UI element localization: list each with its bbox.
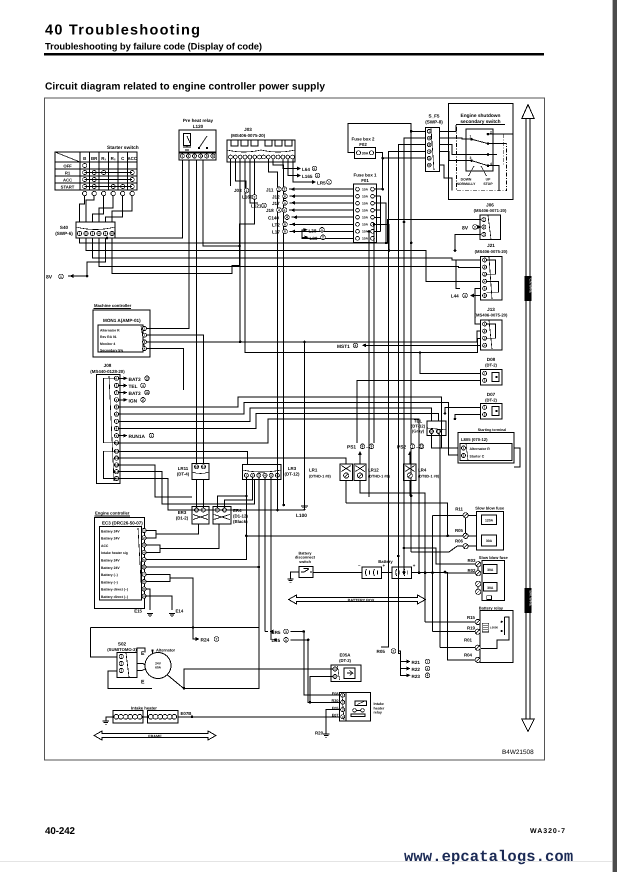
svg-text:Starting terminal: Starting terminal xyxy=(478,428,507,432)
terminal R01 xyxy=(475,645,480,650)
fuse ER3 xyxy=(192,507,209,524)
wires D08 xyxy=(420,353,481,374)
harness label lower xyxy=(525,588,532,613)
svg-text:L30: L30 xyxy=(310,236,318,241)
svg-text:40-242: 40-242 xyxy=(45,826,76,837)
svg-text:L805 (070-12): L805 (070-12) xyxy=(461,437,488,442)
svg-text:L64: L64 xyxy=(302,167,310,172)
svg-text:+: + xyxy=(413,563,416,568)
connector TEL xyxy=(427,421,446,436)
starter switch table xyxy=(55,152,137,190)
svg-text:Fuse box 2: Fuse box 2 xyxy=(352,137,375,142)
svg-text:1: 1 xyxy=(151,434,153,438)
switch contact box xyxy=(466,129,493,171)
wires J21 pins 4 5 xyxy=(475,288,481,324)
svg-text:D08: D08 xyxy=(487,357,496,362)
diode LR1 xyxy=(340,464,352,481)
connector D08 xyxy=(481,370,502,386)
node R22-4 xyxy=(401,662,410,669)
node L38-1 xyxy=(302,230,354,239)
svg-text:Monitor 4: Monitor 4 xyxy=(100,342,115,346)
fuse ER4 xyxy=(213,507,231,524)
svg-text:E: E xyxy=(141,651,145,657)
starter switch contacts xyxy=(83,164,87,168)
svg-text:J11: J11 xyxy=(266,187,274,192)
svg-text:START: START xyxy=(61,185,75,190)
svg-text:(SWP-6): (SWP-6) xyxy=(55,231,73,236)
svg-text:E07B: E07B xyxy=(181,711,192,716)
svg-text:PS2: PS2 xyxy=(397,445,406,451)
svg-text:13: 13 xyxy=(145,377,149,381)
svg-text:(MS406-0075-20): (MS406-0075-20) xyxy=(231,133,266,138)
svg-text:7: 7 xyxy=(427,660,429,664)
svg-text:NORMALLY: NORMALLY xyxy=(457,182,477,186)
svg-text:40 Troubleshooting: 40 Troubleshooting xyxy=(45,23,200,39)
svg-text:Battery: Battery xyxy=(378,559,393,564)
intake heater ground xyxy=(106,717,113,721)
svg-text:B: B xyxy=(83,156,86,161)
svg-text:Battery 24V: Battery 24V xyxy=(101,529,120,533)
connector LR3 xyxy=(243,465,282,480)
svg-text:(MS406-0075-20): (MS406-0075-20) xyxy=(475,249,508,254)
svg-text:LT2: LT2 xyxy=(272,222,280,227)
svg-text:J03: J03 xyxy=(244,127,252,132)
junction dots fuse verticals xyxy=(403,221,406,224)
svg-text:L38: L38 xyxy=(309,228,317,233)
wires L805 right xyxy=(514,448,520,467)
node RUN1A-1 xyxy=(119,435,126,437)
svg-text:10A: 10A xyxy=(362,237,369,241)
svg-text:7: 7 xyxy=(216,637,218,641)
svg-text:L165: L165 xyxy=(302,174,313,179)
svg-text:R1: R1 xyxy=(65,171,71,176)
connector J13 comb xyxy=(487,324,496,338)
svg-text:10A: 10A xyxy=(362,194,369,198)
svg-text:6: 6 xyxy=(314,167,316,171)
svg-text:R21: R21 xyxy=(412,660,421,665)
svg-text:10A: 10A xyxy=(362,187,369,191)
svg-text:Battery (–): Battery (–) xyxy=(101,573,118,577)
svg-text:S02: S02 xyxy=(118,642,127,647)
wires S40 to right buses xyxy=(80,220,482,243)
svg-text:Battery (–): Battery (–) xyxy=(101,580,118,584)
svg-text:3: 3 xyxy=(263,204,265,208)
battery 2 xyxy=(392,567,412,579)
svg-text:J06: J06 xyxy=(486,203,494,208)
svg-text:1: 1 xyxy=(328,180,330,184)
diagram frame xyxy=(45,98,545,760)
svg-text:OFF: OFF xyxy=(63,164,72,169)
wires LR11 down to ER3 xyxy=(196,479,198,508)
node LR5-1 xyxy=(312,180,316,184)
svg-text:10A: 10A xyxy=(362,230,369,234)
svg-text:J13: J13 xyxy=(487,307,495,312)
svg-text:+: + xyxy=(383,563,386,568)
svg-text:3: 3 xyxy=(285,630,287,634)
wires PS verticals down xyxy=(345,458,347,464)
svg-text:R01: R01 xyxy=(464,638,473,643)
svg-text:J03: J03 xyxy=(234,188,242,193)
wires relay pins xyxy=(304,632,341,696)
terminal R15 xyxy=(475,619,480,624)
svg-text:30A: 30A xyxy=(487,568,494,572)
svg-text:(D1-2): (D1-2) xyxy=(176,516,189,521)
svg-text:R04: R04 xyxy=(464,653,473,658)
svg-text:ER3: ER3 xyxy=(178,510,187,515)
intake heater relay box xyxy=(346,692,371,721)
svg-text:R₁: R₁ xyxy=(101,156,106,161)
node 8V1 xyxy=(68,275,87,277)
svg-text:(DTHD-1 #8): (DTHD-1 #8) xyxy=(309,475,331,479)
svg-text:R02: R02 xyxy=(467,568,476,573)
battery box arrow xyxy=(289,595,426,604)
svg-text:B4W21508: B4W21508 xyxy=(502,749,534,756)
svg-text:Pre heat relay: Pre heat relay xyxy=(183,118,214,123)
switch pointer lines xyxy=(469,166,487,176)
svg-text:1: 1 xyxy=(278,188,280,192)
svg-text:60A: 60A xyxy=(155,666,162,670)
connector J06 xyxy=(480,215,501,239)
machine controller MON1 xyxy=(93,310,150,357)
svg-text:10A: 10A xyxy=(362,208,369,212)
svg-text:2: 2 xyxy=(284,188,286,192)
svg-text:MST1: MST1 xyxy=(337,344,350,350)
svg-text:WA320-7: WA320-7 xyxy=(530,828,565,835)
svg-text:R19: R19 xyxy=(467,626,476,631)
svg-text:11: 11 xyxy=(437,430,441,434)
svg-text:Battery direct (–): Battery direct (–) xyxy=(101,595,128,599)
svg-text:RUN1A: RUN1A xyxy=(129,434,146,440)
svg-text:13: 13 xyxy=(115,463,119,467)
svg-text:J18: J18 xyxy=(266,208,274,213)
svg-text:F02: F02 xyxy=(359,142,367,147)
svg-text:(DTHD-1 #8): (DTHD-1 #8) xyxy=(368,475,390,479)
svg-text:(DT-4): (DT-4) xyxy=(177,472,190,477)
svg-text:R11: R11 xyxy=(455,507,463,512)
connector J08 left comb xyxy=(104,378,117,478)
svg-text:BATTERY BOX: BATTERY BOX xyxy=(348,599,375,603)
svg-text:Circuit diagram related to eng: Circuit diagram related to engine contro… xyxy=(45,82,325,93)
svg-text:PS1: PS1 xyxy=(347,445,356,451)
wire harness mid verticals xyxy=(283,443,285,505)
connector D07 xyxy=(481,404,502,420)
slow blow fuse block 2 xyxy=(482,560,505,600)
svg-text:Battery direct (–): Battery direct (–) xyxy=(101,588,128,592)
svg-text:BAT.WIRE: BAT.WIRE xyxy=(529,591,533,607)
svg-text:30A: 30A xyxy=(487,586,494,590)
svg-text:Alternator R: Alternator R xyxy=(100,329,120,333)
svg-text:8V: 8V xyxy=(46,275,53,281)
svg-text:Battery 24V: Battery 24V xyxy=(101,559,120,563)
ground E14 xyxy=(169,614,175,617)
svg-text:10: 10 xyxy=(142,594,146,598)
wires MON1 pins xyxy=(147,160,190,329)
alternator xyxy=(145,653,171,679)
svg-text:ACC: ACC xyxy=(101,544,109,548)
svg-text:Fuse box 1: Fuse box 1 xyxy=(354,173,377,178)
node L165-2 xyxy=(297,174,301,178)
svg-text:9: 9 xyxy=(371,445,373,449)
node ER5-3 xyxy=(265,631,268,633)
svg-text:11: 11 xyxy=(202,465,206,469)
svg-text:(Gray): (Gray) xyxy=(412,429,425,434)
wires S_F5 to switch xyxy=(439,125,456,131)
header rule xyxy=(44,53,544,55)
svg-text:11: 11 xyxy=(420,445,424,449)
node BAT3-16 xyxy=(119,392,126,394)
svg-text:S40: S40 xyxy=(60,225,69,230)
svg-text:ER4: ER4 xyxy=(233,508,242,513)
svg-text:6: 6 xyxy=(284,230,286,234)
wire LR1 to R05 xyxy=(346,503,447,536)
page right edge shadow xyxy=(613,0,617,872)
svg-text:1: 1 xyxy=(60,275,62,279)
svg-text:4: 4 xyxy=(142,384,144,388)
connector J21 comb xyxy=(487,260,499,292)
svg-text:E15: E15 xyxy=(134,609,142,614)
svg-text:11: 11 xyxy=(223,508,227,512)
svg-text:30A: 30A xyxy=(486,539,493,543)
svg-text:1: 1 xyxy=(284,201,286,205)
svg-text:2: 2 xyxy=(142,398,144,402)
svg-text:R23: R23 xyxy=(412,674,421,679)
svg-text:(SUMITOMO-3): (SUMITOMO-3) xyxy=(107,647,137,652)
svg-text:F01: F01 xyxy=(361,178,369,183)
wire S40 pin5 to 8V node xyxy=(87,238,106,276)
wires F01 right side busbar xyxy=(374,188,382,190)
intake heater coil 2 xyxy=(148,711,178,723)
wires switch internal xyxy=(488,133,513,135)
svg-text:L121: L121 xyxy=(251,204,262,209)
svg-text:R05: R05 xyxy=(377,649,386,654)
terminal R11 xyxy=(463,513,468,518)
pre heat relay L120 xyxy=(179,130,216,153)
svg-text:E: E xyxy=(141,680,145,686)
svg-text:(MS406-0075-20): (MS406-0075-20) xyxy=(475,313,508,318)
svg-text:1: 1 xyxy=(246,189,248,193)
node IGN-2 xyxy=(119,399,126,401)
harness label upper xyxy=(525,276,532,301)
svg-text:Starter switch: Starter switch xyxy=(107,145,139,151)
svg-text:(MS440-0128-20): (MS440-0128-20) xyxy=(90,369,125,374)
svg-text:Alternator: Alternator xyxy=(156,648,176,653)
svg-text:C140: C140 xyxy=(268,215,279,220)
svg-text:10: 10 xyxy=(430,430,434,434)
wires J03 pins to harness verticals xyxy=(268,159,277,415)
svg-text:D07: D07 xyxy=(487,392,496,397)
ground E15 xyxy=(147,614,153,617)
svg-text:14: 14 xyxy=(115,470,119,474)
svg-text:S_F5: S_F5 xyxy=(429,114,440,119)
svg-text:10A: 10A xyxy=(362,201,369,205)
svg-text:STOP: STOP xyxy=(483,182,493,186)
svg-text:10: 10 xyxy=(195,508,199,512)
svg-text:R15: R15 xyxy=(467,615,476,620)
svg-text:R20: R20 xyxy=(315,731,324,736)
connector S40 xyxy=(76,222,115,238)
svg-text:R24: R24 xyxy=(201,638,210,644)
svg-text:6: 6 xyxy=(284,223,286,227)
slow blow 2 lower terminals xyxy=(476,581,481,586)
wires battery relay xyxy=(425,621,475,623)
ground L100 xyxy=(304,342,306,506)
svg-text:6: 6 xyxy=(284,208,286,212)
svg-text:LR1: LR1 xyxy=(309,468,318,473)
svg-text:BAT3: BAT3 xyxy=(129,391,142,397)
svg-text:8: 8 xyxy=(362,445,364,449)
node PS1 arrow xyxy=(359,453,361,464)
svg-text:Starter C: Starter C xyxy=(470,455,485,459)
svg-text:Intake heater sig: Intake heater sig xyxy=(101,551,128,555)
svg-text:(DT-2): (DT-2) xyxy=(339,658,351,663)
battery disconnect ground xyxy=(291,572,299,579)
svg-text:LR3: LR3 xyxy=(288,466,297,471)
svg-text:3: 3 xyxy=(470,156,472,160)
svg-text:ACC: ACC xyxy=(127,156,137,161)
svg-text:120A: 120A xyxy=(485,518,494,522)
svg-text:L0000: L0000 xyxy=(490,626,498,630)
svg-text:4: 4 xyxy=(278,208,280,212)
svg-text:www.epcatalogs.com: www.epcatalogs.com xyxy=(404,848,573,866)
engine controller EC3 xyxy=(95,518,145,609)
svg-text:L166: L166 xyxy=(242,195,253,200)
svg-text:L100: L100 xyxy=(296,513,307,519)
connector S_F5 xyxy=(425,128,439,172)
starter switch terminals xyxy=(83,191,87,195)
svg-text:ACC: ACC xyxy=(63,178,72,183)
terminal R02 xyxy=(476,571,481,576)
wires LR3 down xyxy=(217,477,246,508)
wires S02 right xyxy=(137,664,145,666)
svg-text:J21: J21 xyxy=(487,243,495,248)
wires starter switch to S40 xyxy=(80,196,85,222)
svg-text:(D1-12): (D1-12) xyxy=(233,514,248,519)
wires EC3 pins xyxy=(146,531,156,538)
svg-text:R06: R06 xyxy=(455,539,464,544)
wires J03 pins down xyxy=(230,159,232,186)
svg-text:1: 1 xyxy=(321,228,323,232)
pre heat relay pin strip xyxy=(179,152,216,160)
svg-text:Slow blow fuse: Slow blow fuse xyxy=(479,555,509,560)
svg-text:11: 11 xyxy=(202,508,206,512)
svg-text:E14: E14 xyxy=(176,609,184,614)
svg-text:ER5: ER5 xyxy=(272,630,281,635)
wires diodes down xyxy=(345,481,347,504)
wires F02 xyxy=(348,123,411,152)
svg-text:LR5: LR5 xyxy=(317,181,326,186)
node BAT3-13 xyxy=(119,377,126,379)
svg-text:10A: 10A xyxy=(362,223,369,227)
svg-text:4: 4 xyxy=(427,667,429,671)
node R21-7 xyxy=(398,651,409,662)
svg-text:Battery 24V: Battery 24V xyxy=(101,566,120,570)
connector E05A xyxy=(331,665,361,682)
wires S_F5 left xyxy=(411,130,425,132)
svg-text:4: 4 xyxy=(286,216,288,220)
svg-text:(SWP-8): (SWP-8) xyxy=(425,120,443,125)
fuse box 2 F02 xyxy=(354,147,375,158)
frame arrow xyxy=(94,731,216,740)
svg-text:10: 10 xyxy=(195,465,199,469)
svg-text:(DT-2): (DT-2) xyxy=(485,363,497,368)
svg-text:30A: 30A xyxy=(362,152,369,156)
svg-text:R₂: R₂ xyxy=(111,156,116,161)
connector S02 xyxy=(117,653,137,678)
svg-text:Battery relay: Battery relay xyxy=(479,606,504,611)
node TEL-4 xyxy=(119,385,126,387)
svg-text:E07: E07 xyxy=(332,713,339,717)
terminal R03 xyxy=(476,562,481,567)
svg-text:Alternator R: Alternator R xyxy=(470,447,491,451)
svg-text:2: 2 xyxy=(317,174,319,178)
fuse box 1 F01 xyxy=(354,184,377,243)
diode LR12 xyxy=(354,464,366,481)
svg-text:2: 2 xyxy=(254,195,256,199)
svg-text:J12: J12 xyxy=(272,194,280,199)
svg-text:E05A: E05A xyxy=(340,653,352,658)
wires J08 buses right xyxy=(119,397,458,448)
page bottom edge line xyxy=(0,861,612,862)
svg-text:IGN: IGN xyxy=(129,398,138,404)
wire F01 vertical to E05A zone xyxy=(403,571,406,574)
slow blow fuse block 1 xyxy=(477,512,504,551)
svg-text:J08: J08 xyxy=(104,363,112,368)
svg-text:(DT8D-1 #8): (DT8D-1 #8) xyxy=(418,475,440,479)
svg-text:L44: L44 xyxy=(451,294,459,299)
alternator circuit loop xyxy=(91,627,259,629)
intake heater coil 1 xyxy=(113,711,143,723)
engine shutdown secondary switch box xyxy=(449,104,514,200)
wires TEL down xyxy=(432,434,459,449)
svg-text:R03: R03 xyxy=(467,558,476,563)
svg-text:CN.WIRE: CN.WIRE xyxy=(529,279,533,294)
svg-text:1: 1 xyxy=(285,638,287,642)
svg-text:2: 2 xyxy=(474,225,476,229)
svg-text:EC3 (DRC26-50-07): EC3 (DRC26-50-07) xyxy=(102,521,143,526)
svg-text:(DT-2): (DT-2) xyxy=(485,398,497,403)
svg-text:Engine controller: Engine controller xyxy=(95,511,130,516)
svg-text:switch: switch xyxy=(299,560,311,564)
wires slow blow 1 xyxy=(468,514,476,516)
battery 1 xyxy=(362,567,382,579)
svg-text:R05: R05 xyxy=(455,528,464,533)
terminal R19 xyxy=(475,629,480,634)
terminal R04 xyxy=(475,657,480,662)
svg-text:2: 2 xyxy=(322,236,324,240)
svg-text:(MS406-0071-20): (MS406-0071-20) xyxy=(474,208,507,213)
svg-text:LR4: LR4 xyxy=(418,468,427,473)
svg-text:L17: L17 xyxy=(272,230,280,235)
svg-text:12: 12 xyxy=(115,456,119,460)
connector J03 xyxy=(227,140,295,162)
svg-text:2: 2 xyxy=(393,649,395,653)
wires battery xyxy=(313,572,362,574)
terminal block L805 xyxy=(458,433,514,464)
node L30-2 xyxy=(302,236,307,238)
connector J08 xyxy=(96,375,119,484)
svg-text:R22: R22 xyxy=(412,667,421,672)
svg-text:Intake heater: Intake heater xyxy=(131,706,157,711)
svg-text:Rev RA 01: Rev RA 01 xyxy=(100,335,117,339)
wires J03 right pins to L64 nodes xyxy=(283,159,297,169)
wires pre heat relay down xyxy=(107,160,182,238)
svg-text:MON1 A(AMP-01): MON1 A(AMP-01) xyxy=(103,318,141,323)
terminal R06 xyxy=(463,544,468,549)
diode LR4 xyxy=(404,464,416,481)
connector J21 xyxy=(481,256,502,300)
node R23-4 xyxy=(401,669,410,676)
node R24-7 xyxy=(193,628,198,639)
